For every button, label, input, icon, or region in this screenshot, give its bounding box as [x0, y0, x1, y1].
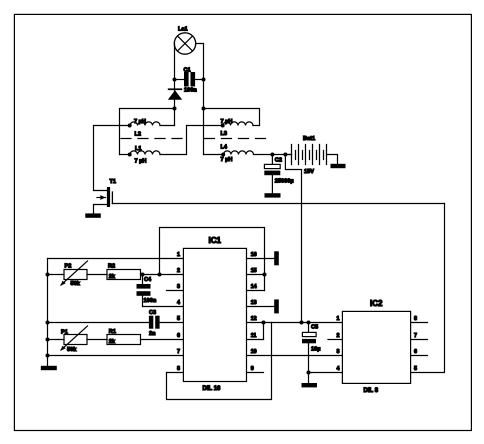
svg-text:IC2: IC2 [370, 299, 383, 308]
IC2 pin 8 [411, 316, 428, 322]
IC1 pin 1 [177, 252, 180, 258]
svg-text:T1: T1 [110, 179, 117, 185]
svg-text:7 µH: 7 µH [134, 119, 146, 125]
svg-text:La1: La1 [178, 26, 188, 32]
node supply vertical on pin12 row [300, 321, 304, 325]
svg-text:2: 2 [337, 333, 340, 339]
capacitor C4 [137, 275, 157, 307]
svg-text:L3: L3 [221, 131, 228, 137]
svg-text:16: 16 [251, 252, 257, 258]
svg-text:P1: P1 [61, 330, 68, 336]
svg-text:6: 6 [177, 333, 180, 339]
node pin2 / top loop [158, 273, 162, 277]
svg-text:8: 8 [414, 316, 417, 322]
resistor R2 [107, 264, 141, 280]
svg-text:4: 4 [177, 300, 180, 306]
svg-text:L1: L1 [135, 146, 142, 152]
wire IC1 pin12 to IC2 pin1 [247, 322, 343, 324]
wire T1 gate to right side [112, 203, 444, 205]
svg-text:7 µH: 7 µH [135, 159, 147, 165]
svg-text:9: 9 [251, 366, 254, 372]
wire pin2 node up over IC1 down to pin15 [160, 228, 265, 291]
wire R2 to IC1 pin2 [141, 274, 184, 276]
svg-text:R1: R1 [109, 329, 116, 335]
node pin15 [263, 273, 267, 277]
wire P2 to R2 [87, 274, 107, 276]
svg-text:7 µH: 7 µH [221, 157, 233, 163]
capacitor C3 [149, 310, 160, 337]
ground left bus [41, 366, 57, 370]
IC1 pin 5 [177, 316, 180, 322]
svg-text:7 µH: 7 µH [221, 119, 233, 125]
wire lamp right [196, 44, 204, 155]
node L4 / C2 [270, 153, 274, 157]
node R2 / C4 [141, 273, 145, 277]
svg-text:R2: R2 [108, 264, 115, 270]
svg-text:C1: C1 [184, 67, 191, 73]
svg-text:P2: P2 [65, 264, 72, 270]
svg-text:L2: L2 [135, 131, 142, 137]
transistor T1 [94, 126, 117, 214]
svg-text:15: 15 [251, 268, 257, 274]
node bus C3 row [46, 321, 50, 325]
ground T1 source [85, 213, 101, 217]
IC1 pin 2 [177, 268, 180, 274]
capacitor C1 [175, 67, 204, 93]
wire R1 to IC1 pin6 [141, 339, 184, 341]
transformer core dashes right [205, 138, 269, 140]
wire L1 right to L3 left [187, 126, 223, 155]
svg-text:L4: L4 [221, 144, 228, 150]
ground battery minus [331, 164, 346, 168]
svg-text:7: 7 [414, 333, 417, 339]
svg-text:50k: 50k [71, 281, 81, 287]
ground C2 [265, 193, 281, 197]
wire P1 to R1 [87, 339, 107, 341]
inductor L3 [221, 119, 260, 137]
battery Bat1 [285, 136, 337, 175]
wire right side vertical down to IC2 pin 5 [411, 204, 445, 373]
node C5 bottom / IC2 pin4 [307, 371, 311, 375]
svg-text:2: 2 [177, 268, 180, 274]
node bus P2 row [46, 273, 50, 277]
svg-text:C4: C4 [144, 277, 152, 283]
IC1 pin 7 [177, 349, 180, 355]
IC2 pin 7 [411, 333, 428, 339]
resistor R1 [107, 329, 141, 345]
svg-text:3: 3 [337, 349, 340, 355]
wire bus to IC1 pin7 [48, 355, 184, 357]
IC1 pin 11 [247, 333, 264, 339]
wire IC1 pin1 to left bus [48, 258, 184, 260]
potentiometer P2 [48, 261, 88, 287]
wire right transformer top [204, 109, 260, 126]
svg-text:13: 13 [251, 300, 257, 306]
IC1 pin 3 [167, 284, 184, 290]
inductor L4 [204, 144, 292, 163]
ground C5 [302, 383, 318, 387]
capacitor C5 [302, 323, 320, 384]
wire IC1 pin8 loop to pin12 row [167, 323, 272, 400]
wire C5 node to IC2 pin4 [309, 372, 343, 374]
node pin12 stub [262, 321, 266, 325]
inductor L1 [120, 146, 187, 165]
IC1 pin 9 [247, 366, 264, 372]
svg-text:DIL 16: DIL 16 [203, 386, 222, 392]
wire left transformer top [120, 109, 175, 155]
svg-text:100n: 100n [144, 298, 157, 304]
svg-text:C3: C3 [149, 310, 156, 316]
wire IC1 pin10 to IC2 pin3 [247, 355, 343, 357]
left bus [47, 259, 49, 366]
svg-text:100n: 100n [184, 87, 197, 93]
wire lamp left down to L2 right vertical [174, 44, 176, 126]
IC1 pin 14 [247, 284, 265, 290]
node bus P1 row [46, 338, 50, 342]
IC2 pin 1 [337, 316, 340, 322]
node lamp right / C1 right [202, 78, 206, 82]
svg-text:1: 1 [177, 252, 180, 258]
svg-text:6: 6 [414, 349, 417, 355]
node battery plus [283, 153, 287, 157]
op IC1 body [183, 236, 246, 392]
node bus pin7 row [46, 354, 50, 358]
svg-text:2n: 2n [149, 331, 156, 337]
IC2 pin 6 [411, 349, 428, 355]
IC2 pin 2 [328, 333, 342, 339]
svg-text:C5: C5 [311, 324, 318, 330]
svg-text:15V: 15V [304, 169, 314, 175]
IC1 pin 8 [167, 366, 184, 372]
wire C4 to IC1 pin4 [143, 306, 184, 308]
op IC2 body [342, 299, 410, 394]
IC2 pin 3 [337, 349, 340, 355]
capacitor C2 [264, 155, 293, 194]
node lamp left / C1 left [173, 78, 177, 82]
wire pin12 node down to pin11 [263, 323, 265, 340]
wire C3 to IC1 pin5 [160, 322, 183, 324]
IC2 pin 4 [337, 366, 340, 372]
lamp La1 [174, 26, 195, 54]
svg-text:DIL 8: DIL 8 [364, 388, 379, 394]
svg-text:8: 8 [177, 366, 180, 372]
svg-text:25000µ: 25000µ [275, 179, 294, 185]
svg-text:1: 1 [337, 316, 340, 322]
potentiometer P1 [48, 326, 88, 353]
transformer core dashes left [121, 138, 187, 140]
svg-text:50k: 50k [67, 347, 77, 353]
svg-text:2k: 2k [109, 339, 116, 345]
svg-text:5: 5 [414, 366, 417, 372]
svg-text:2k: 2k [109, 274, 116, 280]
wire bus to C3 [48, 322, 150, 324]
svg-text:IC1: IC1 [209, 236, 222, 245]
IC1 pin 6 [177, 333, 180, 339]
node diode anode / left top wire [173, 107, 177, 111]
node right top wire [202, 107, 206, 111]
IC1 pin 15 [247, 268, 265, 274]
wire battery plus down to IC1 pin12 row [285, 155, 301, 323]
IC1 pin 16 and supply bar [247, 251, 279, 265]
svg-text:5: 5 [177, 316, 180, 322]
inductor L2 [94, 119, 175, 137]
svg-text:3: 3 [177, 284, 180, 290]
IC1 pin 10 [251, 349, 257, 355]
svg-text:C2: C2 [275, 158, 282, 164]
svg-text:7: 7 [177, 349, 180, 355]
IC1 pin 13 and supply bar [247, 299, 279, 313]
IC1 pin 12 [251, 316, 257, 322]
svg-text:10: 10 [251, 349, 257, 355]
diode D1 [168, 88, 182, 99]
svg-text:14: 14 [251, 284, 257, 290]
svg-text:12: 12 [251, 316, 257, 322]
IC2 pin 5 [414, 366, 417, 372]
svg-text:11: 11 [251, 333, 257, 339]
svg-text:10µ: 10µ [311, 346, 320, 352]
svg-text:4: 4 [337, 366, 340, 372]
node C5 top [307, 321, 311, 325]
IC1 pin 4 [177, 300, 180, 306]
svg-text:Bat1: Bat1 [303, 136, 315, 142]
